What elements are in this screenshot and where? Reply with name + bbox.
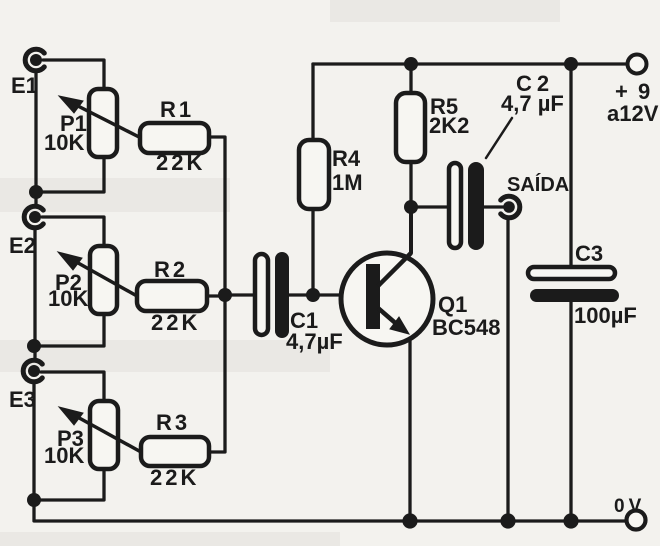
svg-text:Q1: Q1	[438, 292, 467, 317]
svg-text:22K: 22K	[150, 465, 199, 490]
svg-text:0V: 0V	[614, 496, 645, 517]
svg-text:E2: E2	[9, 233, 36, 258]
svg-text:4,7 µF: 4,7 µF	[501, 91, 564, 116]
svg-text:100µF: 100µF	[574, 303, 637, 328]
svg-text:22K: 22K	[151, 310, 200, 335]
svg-text:BC548: BC548	[432, 315, 500, 340]
svg-text:4,7µF: 4,7µF	[286, 329, 343, 354]
svg-text:2K2: 2K2	[429, 113, 469, 138]
svg-text:E1: E1	[11, 73, 38, 98]
svg-text:C3: C3	[575, 241, 603, 266]
svg-text:E3: E3	[9, 387, 36, 412]
svg-text:R3: R3	[156, 410, 190, 435]
svg-text:R4: R4	[332, 146, 361, 171]
svg-text:10K: 10K	[44, 443, 84, 468]
svg-text:10K: 10K	[48, 286, 88, 311]
svg-text:1M: 1M	[332, 170, 363, 195]
svg-text:10K: 10K	[44, 130, 84, 155]
svg-text:R2: R2	[154, 257, 188, 282]
svg-text:SAÍDA: SAÍDA	[507, 173, 569, 196]
svg-text:R1: R1	[160, 97, 194, 122]
svg-text:22K: 22K	[156, 150, 205, 175]
svg-text:a12V: a12V	[607, 101, 659, 126]
